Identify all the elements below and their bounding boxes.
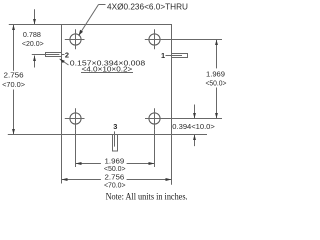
svg-text:2: 2 (65, 50, 69, 59)
svg-text:<70.0>: <70.0> (104, 180, 126, 189)
svg-text:1: 1 (161, 51, 165, 60)
svg-text:1.969: 1.969 (206, 70, 225, 79)
svg-text:<50.0>: <50.0> (206, 79, 227, 88)
svg-text:<4.0×10×0.2>: <4.0×10×0.2> (82, 65, 133, 74)
svg-text:4XØ0.236<6.0>THRU: 4XØ0.236<6.0>THRU (107, 2, 188, 11)
svg-text:3: 3 (113, 122, 117, 131)
svg-text:2.756: 2.756 (4, 71, 24, 80)
svg-text:0.788: 0.788 (23, 30, 41, 39)
svg-text:Note: All units in inches.: Note: All units in inches. (106, 192, 188, 202)
svg-text:0.394<10.0>: 0.394<10.0> (172, 122, 215, 131)
svg-text:<20.0>: <20.0> (22, 39, 44, 48)
svg-text:<70.0>: <70.0> (2, 80, 25, 89)
